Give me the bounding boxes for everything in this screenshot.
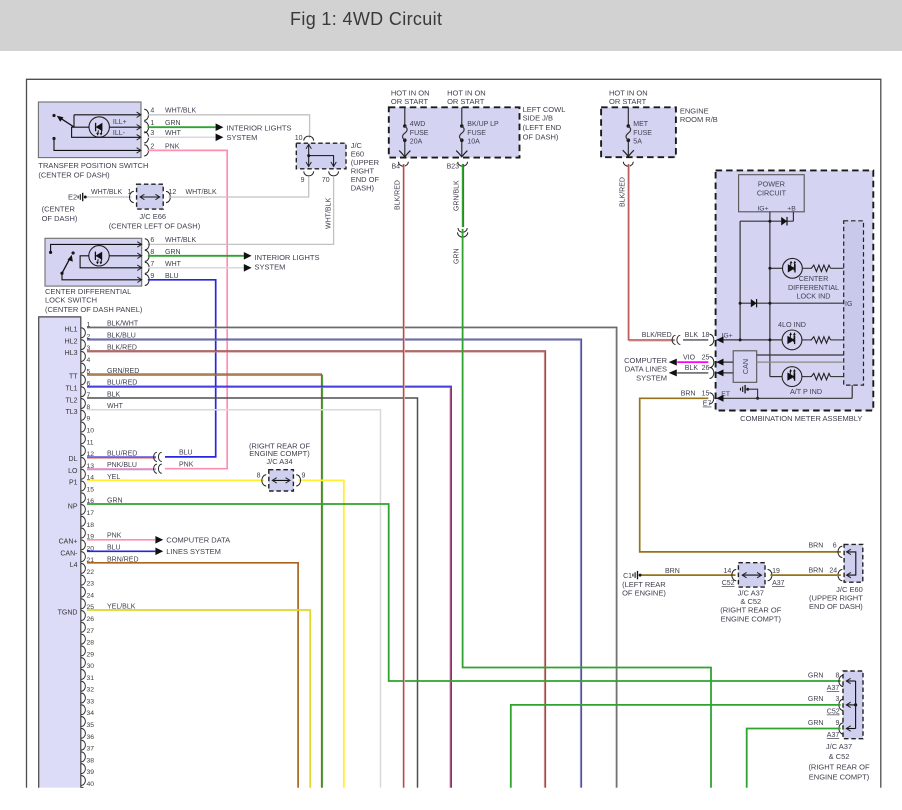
label BLK/RED (B4)	[395, 180, 402, 210]
svg-text:DL: DL	[69, 456, 78, 463]
svg-text:(CENTER LEFT OF DASH): (CENTER LEFT OF DASH)	[109, 221, 201, 230]
svg-text:8: 8	[150, 249, 154, 256]
label BLK 18	[685, 332, 710, 339]
CAN left row BLK	[717, 372, 734, 374]
svg-text:VIO: VIO	[683, 354, 696, 361]
label BLK/RED (MET)	[619, 177, 626, 207]
IG+ bus	[769, 212, 771, 377]
svg-text:BRN: BRN	[809, 543, 824, 550]
svg-text:ILL-: ILL-	[113, 130, 126, 137]
wire TPS pin2 PNK	[148, 150, 228, 468]
diff lock switch caption	[45, 287, 143, 314]
svg-text:FUSE: FUSE	[410, 130, 429, 137]
svg-text:30: 30	[87, 663, 95, 670]
indicator LED A/T P	[770, 367, 802, 387]
svg-text:HL1: HL1	[65, 327, 78, 334]
svg-text:BRN: BRN	[809, 568, 824, 575]
interior lights arrow (GRN)	[216, 123, 224, 131]
svg-text:36: 36	[87, 734, 95, 741]
svg-text:C1: C1	[623, 573, 632, 580]
wire E2 WHT/BLK	[87, 196, 132, 198]
wire pin13 PNK/BLU	[87, 469, 156, 470]
connector strip terminal labels	[58, 327, 79, 617]
fuse BK/UP LP 10A	[456, 107, 499, 157]
wire pin21 BRN/RED	[87, 563, 298, 788]
svg-text:(LEFT REAR: (LEFT REAR	[622, 580, 666, 589]
svg-text:DATA LINES: DATA LINES	[625, 365, 667, 374]
svg-text:4WD: 4WD	[410, 121, 426, 128]
wire BRN 24 (A37 to E60)	[770, 574, 841, 576]
svg-text:J/C A34: J/C A34	[266, 457, 292, 466]
svg-text:DASH): DASH)	[351, 184, 375, 193]
junction connector J/C A37 & C52 (middle)	[732, 563, 772, 587]
svg-text:(CENTER OF DASH): (CENTER OF DASH)	[38, 171, 110, 180]
svg-text:TL1: TL1	[65, 386, 77, 393]
svg-text:FUSE: FUSE	[633, 130, 652, 137]
svg-text:SYSTEM: SYSTEM	[636, 373, 667, 382]
diff lock switch contacts	[49, 244, 142, 279]
svg-text:BLK/RED: BLK/RED	[619, 177, 626, 207]
meter pin18 row IG+	[717, 333, 783, 342]
svg-text:9: 9	[302, 473, 306, 480]
diode D2 row IG	[739, 299, 844, 307]
svg-text:A37: A37	[827, 732, 840, 739]
computer data lines arrow (BLU)	[155, 548, 163, 556]
svg-text:9: 9	[835, 720, 839, 727]
label J/C E60 (right)	[809, 585, 863, 611]
svg-text:OF ENGINE): OF ENGINE)	[622, 589, 666, 598]
svg-text:C52: C52	[827, 709, 840, 716]
wire pin20 BLU	[87, 550, 155, 552]
svg-text:28: 28	[87, 640, 95, 647]
svg-text:12: 12	[169, 189, 177, 196]
svg-text:19: 19	[772, 568, 780, 575]
svg-text:A37: A37	[772, 580, 785, 587]
resistor R1	[802, 265, 843, 271]
wire B23 GRN (lower)	[463, 229, 711, 788]
wire pin8 WHT	[87, 410, 381, 788]
svg-text:OR START: OR START	[391, 97, 429, 106]
label BRN 24	[809, 568, 838, 575]
svg-text:BLK: BLK	[685, 365, 699, 372]
diff lock switch pin arrows	[137, 242, 141, 283]
label GRN 9 (A37)	[808, 720, 840, 739]
svg-text:ILL+: ILL+	[113, 119, 127, 126]
label BLK 26	[685, 365, 710, 372]
svg-text:BLK/RED: BLK/RED	[107, 344, 137, 351]
svg-text:7: 7	[150, 261, 154, 268]
svg-text:(RIGHT REAR OF: (RIGHT REAR OF	[720, 606, 782, 615]
IG bus box (inner)	[844, 221, 864, 385]
ground C1	[623, 571, 642, 580]
diff lock switch lamp	[80, 246, 142, 268]
svg-text:WHT/BLK: WHT/BLK	[91, 189, 122, 196]
resistor R2	[802, 337, 844, 343]
label BRN 15	[681, 391, 710, 398]
wire pin5 GRN/RED	[87, 374, 323, 788]
label engine room R/B	[680, 106, 718, 124]
combination meter assembly box	[716, 170, 874, 410]
svg-text:32: 32	[87, 687, 95, 694]
svg-text:CIRCUIT: CIRCUIT	[757, 189, 787, 198]
svg-text:SIDE J/B: SIDE J/B	[523, 114, 553, 123]
transfer position switch contacts	[52, 114, 141, 150]
CAN right rows	[757, 355, 844, 362]
svg-text:(RIGHT REAR OF: (RIGHT REAR OF	[808, 762, 870, 771]
svg-text:31: 31	[87, 675, 95, 682]
junction block left cowl side J/B	[389, 107, 520, 157]
meter internal ground	[741, 385, 760, 400]
fuse MET 5A	[623, 107, 653, 156]
svg-text:3: 3	[835, 696, 839, 703]
svg-text:15: 15	[702, 391, 710, 398]
svg-text:10: 10	[87, 428, 95, 435]
resistor R3	[802, 373, 844, 379]
wire pin25 YEL/BLK	[87, 610, 310, 788]
computer data arrow (VIO)	[669, 359, 677, 366]
svg-text:9: 9	[87, 416, 91, 423]
svg-text:PNK: PNK	[107, 533, 122, 540]
svg-text:GRN: GRN	[165, 120, 181, 127]
interior lights arrow (WHT)	[216, 134, 224, 142]
label GRN 3 (C52)	[808, 696, 840, 716]
svg-text:10A: 10A	[467, 139, 480, 146]
svg-text:24: 24	[87, 592, 95, 599]
diff lock switch pin connectors	[145, 237, 155, 285]
junction connector J/C A34	[257, 470, 306, 491]
label hot in on or start (4WD fuse)	[391, 89, 430, 106]
label BLU (pin12)	[179, 450, 193, 457]
svg-text:6: 6	[150, 237, 154, 244]
label J/C A34	[249, 441, 311, 466]
svg-text:J/C E66: J/C E66	[139, 212, 166, 221]
svg-text:TRANSFER POSITION SWITCH: TRANSFER POSITION SWITCH	[38, 161, 148, 170]
svg-text:B23: B23	[447, 163, 460, 170]
label 4LO IND	[778, 320, 806, 329]
wire BLK meter pin26	[677, 372, 708, 374]
meter pin connectors	[710, 334, 724, 404]
fuse 4WD 20A	[399, 107, 429, 157]
svg-text:CAN+: CAN+	[59, 539, 78, 546]
svg-text:PNK: PNK	[179, 461, 194, 468]
svg-text:NP: NP	[68, 503, 78, 510]
wire GRN C52 pin3	[511, 705, 841, 788]
svg-text:END OF DASH): END OF DASH)	[809, 602, 863, 611]
indicator LED 4LO	[782, 330, 802, 350]
svg-text:(CENTER: (CENTER	[42, 204, 76, 213]
splice B23	[458, 228, 468, 237]
wire TPS pin4 WHT/BLK	[148, 115, 310, 138]
svg-text:WHT: WHT	[165, 261, 182, 268]
svg-text:5A: 5A	[633, 139, 642, 146]
label left rear of engine	[622, 580, 666, 598]
svg-text:18: 18	[702, 332, 710, 339]
wire BLK to meter pin18	[683, 339, 708, 341]
transfer switch lamp ILL	[72, 115, 141, 138]
svg-text:TT: TT	[69, 374, 78, 381]
svg-text:6: 6	[833, 543, 837, 550]
wire MET BLK/RED	[628, 164, 675, 341]
transfer switch pin arrows	[137, 112, 141, 153]
svg-text:BLU: BLU	[179, 450, 193, 457]
svg-text:GRN: GRN	[808, 696, 824, 703]
interior lights arrow (CDLS WHT)	[244, 264, 252, 272]
svg-text:BLK/RED: BLK/RED	[395, 180, 402, 210]
wire GRN A37 pin9	[747, 729, 841, 788]
splice pin13	[154, 464, 162, 473]
svg-text:20A: 20A	[410, 139, 423, 146]
svg-text:37: 37	[87, 746, 95, 753]
label interior lights system (transfer)	[227, 124, 292, 143]
svg-text:9: 9	[150, 273, 154, 280]
connector B4	[392, 162, 409, 171]
svg-text:8: 8	[257, 473, 261, 480]
label BRN 6	[809, 543, 837, 550]
svg-text:BLK: BLK	[685, 332, 699, 339]
+B branch with diode D1	[740, 212, 793, 226]
svg-text:A/T P IND: A/T P IND	[790, 387, 822, 396]
svg-text:23: 23	[87, 581, 95, 588]
label IG	[845, 301, 852, 308]
svg-text:OR START: OR START	[447, 97, 485, 106]
junction connector J/C E66	[109, 184, 217, 230]
svg-text:WHT/BLK: WHT/BLK	[165, 237, 196, 244]
ground E2	[42, 193, 87, 223]
label hot in on or start (MET fuse)	[609, 89, 648, 106]
svg-text:26: 26	[87, 616, 95, 623]
junction connector J/C E60 (top)	[295, 135, 346, 184]
label A/T P IND	[790, 387, 822, 396]
svg-text:40: 40	[87, 781, 95, 788]
svg-text:39: 39	[87, 769, 95, 776]
svg-text:14: 14	[724, 568, 732, 575]
svg-text:COMBINATION METER ASSEMBLY: COMBINATION METER ASSEMBLY	[740, 414, 862, 423]
wire B4 BLK/RED	[403, 164, 404, 788]
svg-text:33: 33	[87, 698, 95, 705]
splice pin12	[154, 452, 162, 461]
svg-text:SYSTEM: SYSTEM	[227, 133, 258, 142]
svg-text:IG: IG	[845, 301, 852, 308]
label J/C A37 C52 (bottom)	[808, 742, 870, 782]
svg-text:OF DASH): OF DASH)	[523, 133, 559, 142]
svg-text:CAN: CAN	[741, 359, 750, 374]
svg-text:10: 10	[295, 135, 303, 142]
junction connector J/C E60 (right)	[838, 544, 863, 582]
transfer switch pin connectors	[144, 108, 154, 156]
svg-text:E2: E2	[68, 193, 77, 202]
svg-text:WHT/BLK: WHT/BLK	[326, 198, 333, 229]
svg-text:29: 29	[87, 651, 95, 658]
svg-text:ENGINE COMPT): ENGINE COMPT)	[809, 773, 870, 782]
label E7	[703, 401, 712, 408]
label WHT/BLK (vertical)	[326, 198, 333, 229]
wire pin14 YEL (A34 to bottom)	[299, 480, 344, 787]
svg-text:11: 11	[87, 439, 94, 446]
label 14 C52	[722, 568, 735, 587]
svg-text:18: 18	[87, 522, 95, 529]
svg-text:GRN: GRN	[808, 720, 824, 727]
svg-text:FUSE: FUSE	[467, 130, 486, 137]
label VIO 25	[683, 354, 709, 361]
svg-text:BLK/RED: BLK/RED	[642, 332, 672, 339]
svg-text:A37: A37	[827, 685, 840, 692]
svg-text:LO: LO	[68, 468, 78, 475]
svg-text:SYSTEM: SYSTEM	[255, 263, 286, 272]
label WHT/BLK (E2 wire)	[91, 189, 132, 196]
svg-text:ROOM R/B: ROOM R/B	[680, 115, 718, 124]
svg-text:OR START: OR START	[609, 97, 647, 106]
transfer position switch body	[38, 102, 141, 158]
svg-text:C52: C52	[722, 580, 735, 587]
wire E66 pin12 WHT/BLK	[169, 177, 309, 197]
wire C1 BRN	[641, 574, 735, 576]
computer data arrow (BLK)	[669, 369, 677, 376]
svg-text:GRN: GRN	[454, 248, 461, 264]
wire TPS pin1 GRN	[148, 126, 216, 128]
interior lights arrow (CDLS GRN)	[244, 252, 252, 260]
label 19 A37	[772, 568, 785, 587]
svg-text:WHT/BLK: WHT/BLK	[165, 108, 196, 115]
wire VIO	[677, 361, 708, 363]
bottom clip mask	[0, 788, 902, 810]
svg-text:35: 35	[87, 722, 95, 729]
svg-text:(CENTER OF DASH PANEL): (CENTER OF DASH PANEL)	[45, 305, 143, 314]
wire pin2 BLK/BLU	[87, 339, 582, 788]
svg-text:WHT: WHT	[165, 130, 182, 137]
label hot in on or start (BK/UP fuse)	[447, 89, 486, 106]
center differential lock switch body	[45, 238, 142, 286]
svg-text:WHT/BLK: WHT/BLK	[186, 189, 217, 196]
label interior lights system (CDLS)	[255, 253, 320, 271]
wire CDLS pin9 BLU	[148, 280, 216, 457]
svg-text:LINES SYSTEM: LINES SYSTEM	[166, 547, 221, 556]
wire pin3 BLK/RED	[87, 351, 546, 788]
label GRN (B23)	[454, 248, 461, 264]
junction connector J/C A37 & C52 (bottom)	[839, 671, 863, 739]
wire BRN meter pin15	[640, 398, 841, 552]
label GRN 8 (A37)	[808, 673, 840, 693]
svg-text:BLK/WHT: BLK/WHT	[107, 321, 139, 328]
transfer position switch caption	[38, 161, 148, 179]
svg-text:OF DASH): OF DASH)	[42, 214, 78, 223]
svg-text:BRN: BRN	[681, 391, 696, 398]
svg-text:& C52: & C52	[829, 752, 850, 761]
connector MET output	[623, 162, 633, 167]
CAN box	[733, 351, 757, 383]
svg-text:+B: +B	[787, 205, 796, 212]
wire pin16 GRN	[87, 504, 841, 681]
svg-text:22: 22	[87, 569, 95, 576]
diff lock switch pin labels	[165, 237, 196, 280]
svg-text:ENGINE COMPT): ENGINE COMPT)	[721, 614, 782, 623]
transfer switch pin labels	[165, 108, 196, 151]
svg-text:GRN: GRN	[808, 673, 824, 680]
svg-text:HL3: HL3	[65, 350, 78, 357]
svg-text:CAN-: CAN-	[60, 550, 78, 557]
junction block engine room R/B	[601, 107, 676, 157]
svg-text:8: 8	[835, 673, 839, 680]
connector strip wire labels	[107, 321, 139, 611]
label J/C E60 (top)	[351, 141, 380, 193]
title bar	[0, 0, 902, 51]
meter left rail	[739, 221, 741, 340]
svg-text:L4: L4	[70, 562, 78, 569]
svg-text:1: 1	[150, 120, 154, 127]
indicator LED center differential lock	[768, 258, 802, 278]
svg-text:GRN: GRN	[165, 249, 181, 256]
label computer data lines system (strip)	[166, 535, 230, 556]
svg-text:LOCK IND: LOCK IND	[797, 291, 831, 300]
splice meter pin18	[672, 335, 680, 344]
wire pin7 BLK	[87, 398, 418, 788]
label J/C A37 C52 (middle)	[720, 588, 782, 623]
CAN left row VIO	[717, 361, 734, 363]
label computer data lines system (meter)	[624, 356, 668, 383]
label combination meter assembly	[740, 414, 862, 423]
svg-text:LOCK SWITCH: LOCK SWITCH	[45, 296, 97, 305]
svg-text:E7: E7	[703, 401, 712, 408]
svg-text:70: 70	[322, 177, 330, 184]
svg-text:3: 3	[150, 130, 154, 137]
svg-text:BLK/BLU: BLK/BLU	[107, 332, 136, 339]
svg-text:BLU/RED: BLU/RED	[107, 380, 137, 387]
label left cowl side J/B	[523, 105, 566, 141]
wire pin6 BLU/RED	[87, 386, 451, 788]
svg-text:34: 34	[87, 710, 95, 717]
svg-text:TL2: TL2	[65, 397, 77, 404]
svg-text:PNK/BLU: PNK/BLU	[107, 462, 137, 469]
svg-text:(LEFT END: (LEFT END	[523, 123, 562, 132]
svg-text:INTERIOR LIGHTS: INTERIOR LIGHTS	[227, 124, 292, 133]
svg-text:HL2: HL2	[65, 338, 78, 345]
svg-text:IG+: IG+	[757, 205, 768, 212]
wire pin1 BLK/WHT	[87, 327, 617, 787]
connector strip pins 1-40	[81, 322, 94, 798]
wire E60 pin70 WHT/BLK	[148, 177, 334, 244]
connector B23	[447, 162, 468, 171]
svg-text:POWER: POWER	[758, 180, 785, 189]
svg-text:24: 24	[829, 568, 837, 575]
svg-text:BK/UP LP: BK/UP LP	[467, 121, 499, 128]
svg-text:4: 4	[87, 357, 91, 364]
label PNK (pin13)	[179, 461, 194, 468]
svg-text:GRN/BLK: GRN/BLK	[454, 180, 461, 211]
svg-text:27: 27	[87, 628, 95, 635]
svg-text:TGND: TGND	[58, 609, 78, 616]
svg-text:38: 38	[87, 757, 95, 764]
svg-text:BLU: BLU	[165, 273, 179, 280]
svg-text:COMPUTER: COMPUTER	[624, 356, 668, 365]
power circuit box	[739, 175, 805, 213]
svg-text:4LO IND: 4LO IND	[778, 320, 806, 329]
wire TPS pin3 WHT	[148, 136, 216, 138]
svg-text:B4: B4	[392, 163, 401, 170]
wire B23 GRN/BLK	[463, 164, 464, 227]
computer data lines arrow (PNK)	[155, 536, 163, 544]
meter ET row	[717, 385, 853, 398]
svg-text:COMPUTER DATA: COMPUTER DATA	[166, 535, 230, 544]
label BLK/RED (horizontal)	[642, 332, 672, 339]
svg-text:25: 25	[702, 354, 710, 361]
wire pin12 BLU/RED	[87, 457, 156, 458]
svg-text:2: 2	[150, 143, 154, 150]
svg-text:Fig 1: 4WD Circuit: Fig 1: 4WD Circuit	[290, 9, 442, 29]
svg-text:TL3: TL3	[65, 409, 77, 416]
wire pin19 PNK	[87, 539, 155, 541]
svg-text:9: 9	[301, 177, 305, 184]
svg-text:PNK: PNK	[165, 143, 180, 150]
wire pin14 YEL (to A34)	[87, 479, 264, 481]
